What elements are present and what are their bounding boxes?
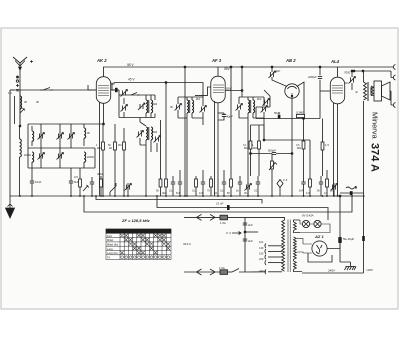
trimmer tone xyxy=(349,71,356,90)
jack C4 xyxy=(277,178,288,196)
pickup input xyxy=(340,186,364,195)
svg-text:Mittel (fix): Mittel (fix) xyxy=(107,243,118,247)
nested loop wire C xyxy=(84,196,352,212)
svg-text:240: 240 xyxy=(259,269,264,273)
spark gap xyxy=(16,76,19,91)
wire bus 45V xyxy=(111,83,203,98)
cap Cc xyxy=(178,170,182,196)
svg-text:Mittel: Mittel xyxy=(107,238,114,242)
svg-text:AK 2: AK 2 xyxy=(96,58,107,63)
svg-text:240V: 240V xyxy=(327,269,336,273)
IF2 trimmer right xyxy=(261,106,268,113)
cap 50pF xyxy=(274,111,281,119)
table X marks xyxy=(120,234,170,254)
svg-text:98V: 98V xyxy=(224,67,231,71)
secondary heater winding xyxy=(294,220,301,233)
svg-text:600: 600 xyxy=(153,103,158,106)
speaker xyxy=(371,81,390,101)
svg-text:0,3: 0,3 xyxy=(306,192,310,195)
trimmer T4 xyxy=(57,153,64,160)
wires xyxy=(178,110,203,196)
coil L3a xyxy=(84,124,86,146)
tube AL4 xyxy=(320,67,345,196)
IF2 coil b xyxy=(253,97,255,118)
wire xyxy=(123,98,125,118)
band filter box left xyxy=(28,124,95,168)
osc coil Lc xyxy=(146,127,148,145)
resistor R10 xyxy=(249,125,252,176)
cap 2nF a xyxy=(243,223,253,227)
svg-text:1,5: 1,5 xyxy=(325,143,329,147)
IF1 trimmer right xyxy=(200,106,207,113)
svg-text:AL4: AL4 xyxy=(330,59,340,64)
trimmer osc2 xyxy=(121,105,128,112)
svg-text:nF: nF xyxy=(355,91,358,94)
mains vertical xyxy=(244,217,246,272)
osc coil Lb xyxy=(151,95,153,118)
lamp wires xyxy=(300,220,330,233)
AZ1 cathode loop xyxy=(308,253,332,262)
left ground rail xyxy=(10,90,15,202)
electrolytic 16uF xyxy=(362,236,365,241)
resistor R2 xyxy=(114,124,117,196)
AB2 grid box xyxy=(256,90,270,107)
svg-text:50pF: 50pF xyxy=(274,111,281,115)
cap C5 left xyxy=(30,168,42,196)
svg-text:kΩ: kΩ xyxy=(214,192,217,195)
svg-text:0,1: 0,1 xyxy=(169,190,173,193)
svg-text:2kΩ: 2kΩ xyxy=(162,192,167,195)
svg-text:Lang: Lang xyxy=(107,247,113,251)
ground xyxy=(6,202,15,218)
svg-text:20000: 20000 xyxy=(24,154,32,157)
wire xyxy=(59,124,61,168)
mains switch xyxy=(232,269,266,273)
junction xyxy=(184,66,186,68)
svg-text:AB 2: AB 2 xyxy=(285,58,296,63)
svg-text:0,1: 0,1 xyxy=(220,190,224,193)
cap Cf xyxy=(238,176,242,196)
svg-text:313 A: 313 A xyxy=(183,242,191,246)
svg-text:Lang (fix): Lang (fix) xyxy=(107,251,118,255)
cap 40pF xyxy=(218,113,233,120)
resistor R5 xyxy=(97,172,104,196)
svg-text:15 nF: 15 nF xyxy=(216,202,223,206)
core lines xyxy=(147,100,150,113)
rectifier AZ1 xyxy=(312,241,327,256)
svg-text:0,1: 0,1 xyxy=(192,190,196,193)
tube AB2 xyxy=(285,84,299,98)
main ground bus xyxy=(10,195,365,197)
svg-text:ZF1: ZF1 xyxy=(196,98,201,101)
junction xyxy=(244,231,246,233)
IF2 trimmer left xyxy=(236,104,243,111)
svg-text:5nF: 5nF xyxy=(176,192,181,195)
AZ1 wires xyxy=(297,238,312,253)
wires AVC mid xyxy=(251,125,311,140)
trimmer osc4 xyxy=(154,136,161,143)
cap Ce xyxy=(222,170,226,196)
mains line top xyxy=(184,214,245,225)
trimmer T2 xyxy=(38,153,45,160)
trimmer osc3 xyxy=(137,131,144,138)
switch S2 xyxy=(110,183,116,196)
misc value labels xyxy=(8,82,358,159)
chassis ground xyxy=(345,267,357,271)
electrolytic 50uF xyxy=(339,237,355,243)
wires xyxy=(239,110,264,196)
resistor R1 xyxy=(102,124,105,196)
right rail A xyxy=(339,196,341,237)
resistor Rd xyxy=(210,176,213,196)
cap 2nF b xyxy=(243,239,253,243)
svg-text:Kurz: Kurz xyxy=(107,234,113,238)
AF3 plate 50V wire xyxy=(226,90,243,92)
tube AK2 xyxy=(88,67,119,124)
IF transformer 2 frame xyxy=(239,97,264,106)
svg-text:500pF: 500pF xyxy=(268,149,276,153)
resistor Ra xyxy=(159,120,162,196)
svg-text:ZF2: ZF2 xyxy=(257,98,262,101)
band switch S1 xyxy=(40,88,53,91)
svg-text:45 V: 45 V xyxy=(128,78,135,82)
right edge terminal 2 xyxy=(354,71,396,80)
wave table xyxy=(106,229,171,260)
vertical rail x=185 xyxy=(184,71,186,197)
svg-text:40pF: 40pF xyxy=(226,115,233,119)
IF1 coil b xyxy=(192,97,194,118)
cap 200pF at AL4 xyxy=(307,67,322,119)
resistor Rc xyxy=(195,176,198,196)
svg-text:2M: 2M xyxy=(118,144,121,147)
vertical rail x=242 from top bus xyxy=(241,67,243,97)
resistor Rg xyxy=(326,170,329,196)
svg-text:AZ 1: AZ 1 xyxy=(314,234,324,239)
trimmer T5 xyxy=(68,133,75,140)
coil L3b xyxy=(84,152,86,168)
bus junction dots xyxy=(19,195,353,197)
IF1 core xyxy=(188,100,191,113)
svg-text:MΩ: MΩ xyxy=(297,147,301,150)
svg-text:MΩ: MΩ xyxy=(97,147,101,150)
cap C7 xyxy=(90,177,94,196)
svg-text:98 V: 98 V xyxy=(127,63,134,67)
svg-text:0,1: 0,1 xyxy=(254,190,258,193)
svg-text:0,5: 0,5 xyxy=(74,175,78,179)
cap 15nF xyxy=(216,202,230,211)
resistor R12 xyxy=(302,119,305,177)
antenna lead wire xyxy=(19,70,21,124)
svg-text:50V: 50V xyxy=(226,87,233,91)
trimmer osc5 xyxy=(138,103,145,110)
wire xyxy=(40,124,42,168)
svg-text:1nF: 1nF xyxy=(199,192,204,195)
svg-text:200pF: 200pF xyxy=(307,75,317,79)
coil L2b xyxy=(32,152,34,168)
AL4 heater wire xyxy=(333,103,335,196)
IF2 coil a xyxy=(248,97,250,118)
mains line bottom xyxy=(184,266,266,275)
antenna coil L1 xyxy=(15,90,26,127)
secondary HT winding xyxy=(294,237,297,259)
resistor R11 xyxy=(258,125,261,176)
svg-text:≈20V: ≈20V xyxy=(366,268,374,272)
transformer core xyxy=(288,220,290,273)
svg-text:130: 130 xyxy=(259,246,264,250)
cap Ci xyxy=(319,176,323,196)
junction dots top bus xyxy=(353,70,355,72)
svg-text:0,2: 0,2 xyxy=(324,192,328,195)
AB2 plate right wire xyxy=(297,82,304,119)
right edge terminal 1 xyxy=(391,65,396,70)
svg-text:374 A: 374 A xyxy=(369,143,381,172)
AB2 cathode down xyxy=(291,98,293,196)
trimmer Tg xyxy=(331,183,338,196)
svg-text:150: 150 xyxy=(259,252,264,256)
IF1 coil a xyxy=(187,97,189,118)
resistor Rb xyxy=(165,82,168,196)
svg-text:220: 220 xyxy=(259,257,264,261)
resistor R3 xyxy=(123,128,126,196)
wire xyxy=(70,124,72,148)
svg-text:20000: 20000 xyxy=(87,156,95,159)
svg-text:45kΩ: 45kΩ xyxy=(97,172,104,176)
osc coil Ld xyxy=(151,127,153,145)
resistor Rf xyxy=(309,140,312,196)
transformer taps xyxy=(259,240,282,274)
svg-text:110: 110 xyxy=(259,240,264,244)
tube AF3 xyxy=(211,67,225,196)
nested loop wire A xyxy=(96,196,262,204)
cap Cd xyxy=(201,170,205,196)
svg-text:MΩ: MΩ xyxy=(244,147,248,150)
wire grid line xyxy=(10,89,96,91)
svg-text:2nF: 2nF xyxy=(248,223,253,227)
cap C6 xyxy=(69,168,79,196)
svg-text:C 4: C 4 xyxy=(283,178,288,182)
AF3 heater wire xyxy=(214,101,216,196)
right edge terminal 3 xyxy=(390,91,396,108)
switch osc xyxy=(131,93,140,96)
svg-text:1,5A: 1,5A xyxy=(220,221,226,225)
trimmer osc1 xyxy=(121,90,128,97)
svg-text:Minerva: Minerva xyxy=(371,112,380,140)
cap Ch xyxy=(301,176,305,196)
resistor 0.5M horizontal xyxy=(296,111,305,118)
resistor R13 xyxy=(321,119,329,177)
svg-text:Bereich: Bereich xyxy=(107,230,116,234)
table row labels xyxy=(107,230,118,260)
IF2 core xyxy=(249,100,252,113)
antenna xyxy=(13,57,33,70)
svg-text:50+16µF: 50+16µF xyxy=(343,237,354,241)
svg-text:kΩ: kΩ xyxy=(109,147,112,150)
trimmer T1 xyxy=(38,133,45,140)
osc coil lower block xyxy=(140,118,146,127)
AF3 grid step wire xyxy=(195,87,211,95)
trimmer T3 xyxy=(57,133,64,140)
trimmer Tf xyxy=(245,183,252,196)
svg-text:600: 600 xyxy=(153,131,158,134)
AB2 bottom wire xyxy=(256,107,320,119)
C4 arrow xyxy=(226,231,241,235)
trimmer 4pF on AVC xyxy=(269,67,288,87)
pot arrow xyxy=(83,185,89,191)
svg-text:ZF = 128,5 kHz: ZF = 128,5 kHz xyxy=(121,218,150,223)
node cluster top xyxy=(103,123,105,125)
cap Cb xyxy=(171,176,175,196)
core lines xyxy=(147,127,150,140)
pilot lamp 2 xyxy=(314,220,321,227)
svg-text:TA: TA xyxy=(107,255,110,259)
svg-text:1,4: 1,4 xyxy=(8,92,12,95)
bottom right bus xyxy=(302,249,364,274)
right rail B xyxy=(363,196,365,273)
cap 500pF xyxy=(250,149,293,155)
svg-text:1,5A: 1,5A xyxy=(219,266,225,270)
secondary rect winding xyxy=(294,259,303,271)
IF transformer 1 frame xyxy=(178,97,203,106)
osc section frame xyxy=(112,83,155,118)
power transformer primary xyxy=(245,217,285,271)
svg-text:10nF: 10nF xyxy=(35,180,42,184)
volume pot xyxy=(269,154,277,197)
resistor Re xyxy=(230,66,233,196)
wire band top xyxy=(28,123,103,125)
resistor R4 0.5M xyxy=(74,168,81,196)
svg-text:C 4: C 4 xyxy=(226,231,231,235)
pilot lamp 1 xyxy=(302,220,309,227)
svg-text:2nF: 2nF xyxy=(248,239,253,243)
trimmer mid xyxy=(125,184,132,191)
svg-text:AF 3: AF 3 xyxy=(211,58,222,63)
output transformer xyxy=(364,71,374,196)
svg-text:4pF: 4pF xyxy=(275,69,280,73)
coil L2a xyxy=(32,126,34,146)
IF1 trimmer left xyxy=(175,104,182,111)
wire top bus 98V xyxy=(103,66,391,68)
svg-text:7000: 7000 xyxy=(344,71,351,75)
osc coil La xyxy=(146,95,148,118)
wave band coil L5 xyxy=(20,126,22,196)
cap Cg xyxy=(256,176,260,196)
table circles bottom row xyxy=(121,256,170,259)
wire osc to bus xyxy=(140,138,157,196)
svg-text:0,5MΩ: 0,5MΩ xyxy=(296,111,304,115)
nested loop wire B xyxy=(157,196,328,220)
svg-text:5nF: 5nF xyxy=(299,190,304,193)
AK2 heater wire xyxy=(99,102,101,196)
svg-text:6V 0,45A: 6V 0,45A xyxy=(302,214,314,218)
bottom row value labels xyxy=(156,190,333,196)
svg-text:MΩ: MΩ xyxy=(253,147,257,150)
